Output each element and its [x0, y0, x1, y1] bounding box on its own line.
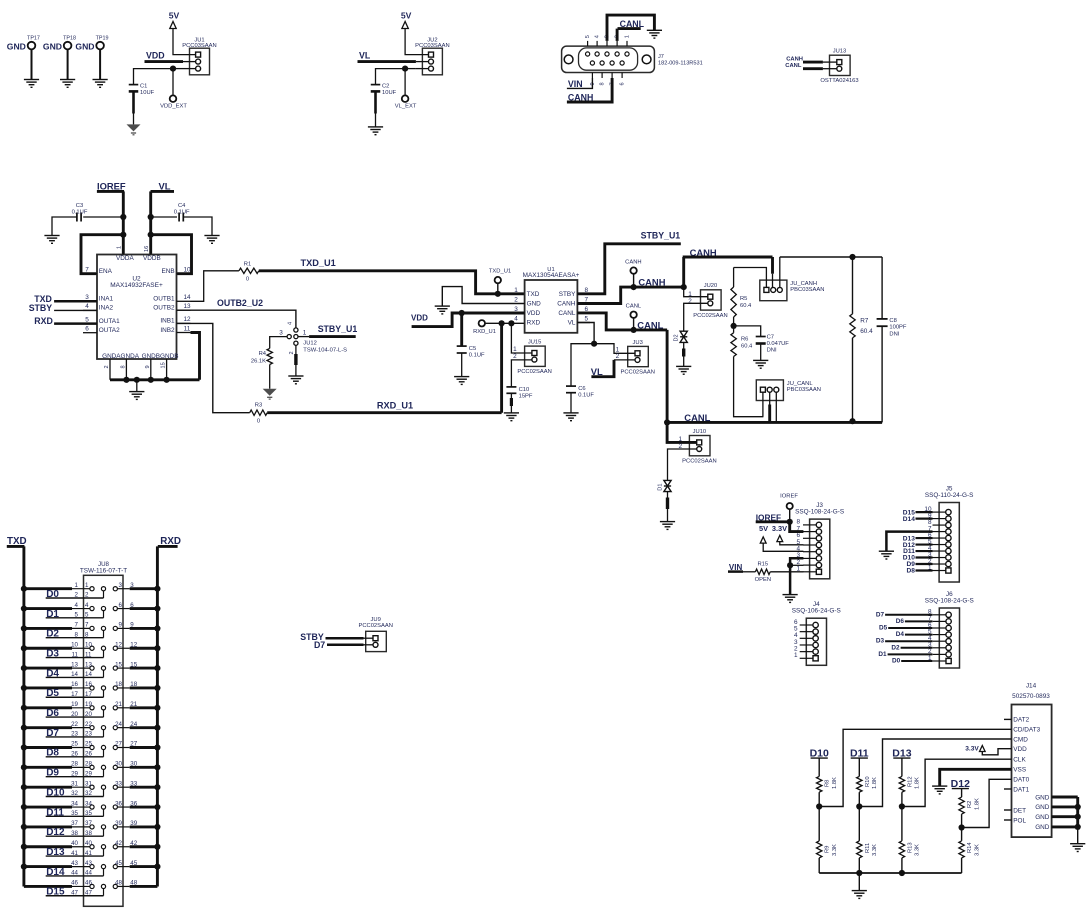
- svg-text:13: 13: [71, 661, 78, 668]
- svg-text:1: 1: [794, 652, 798, 659]
- svg-text:C6: C6: [578, 386, 585, 392]
- svg-text:DAT0: DAT0: [1013, 777, 1029, 784]
- svg-text:33: 33: [115, 780, 122, 787]
- svg-text:48: 48: [115, 880, 122, 887]
- svg-text:12: 12: [115, 641, 122, 648]
- svg-text:27: 27: [115, 741, 122, 748]
- svg-text:RXD_U1: RXD_U1: [473, 329, 496, 335]
- svg-text:R15: R15: [757, 561, 768, 567]
- svg-text:43: 43: [85, 860, 92, 867]
- svg-text:31: 31: [71, 780, 78, 787]
- svg-text:16: 16: [144, 246, 150, 252]
- svg-text:D0: D0: [892, 658, 901, 665]
- svg-text:6: 6: [119, 602, 123, 609]
- svg-text:VL: VL: [359, 51, 371, 61]
- svg-text:10: 10: [183, 267, 191, 274]
- svg-text:30: 30: [130, 761, 137, 768]
- svg-text:32: 32: [85, 790, 92, 797]
- svg-text:GND: GND: [75, 42, 94, 52]
- svg-text:D6: D6: [896, 618, 905, 625]
- svg-text:VL: VL: [159, 181, 171, 192]
- svg-text:20: 20: [85, 711, 92, 718]
- svg-text:DNI: DNI: [889, 331, 899, 337]
- svg-text:R9: R9: [825, 846, 831, 853]
- svg-text:R1: R1: [244, 262, 251, 268]
- svg-text:GND: GND: [1035, 804, 1050, 811]
- svg-text:OUTA2: OUTA2: [99, 327, 120, 334]
- svg-text:C8: C8: [889, 318, 896, 324]
- svg-text:SSQ-108-24-G-S: SSQ-108-24-G-S: [795, 509, 844, 516]
- svg-text:PCC02SAAN: PCC02SAAN: [358, 623, 392, 629]
- svg-text:D1: D1: [878, 651, 887, 658]
- svg-text:22: 22: [85, 721, 92, 728]
- svg-text:3.3K: 3.3K: [974, 844, 980, 856]
- svg-text:4: 4: [287, 322, 293, 325]
- svg-text:PCC02SAAN: PCC02SAAN: [620, 369, 654, 375]
- svg-text:CANH: CANH: [557, 301, 575, 308]
- svg-text:CANL: CANL: [785, 63, 802, 69]
- svg-text:2: 2: [289, 351, 295, 354]
- svg-text:OPEN: OPEN: [755, 577, 771, 583]
- svg-text:15: 15: [115, 661, 122, 668]
- svg-text:25: 25: [85, 741, 92, 748]
- svg-text:32: 32: [71, 790, 78, 797]
- svg-text:40: 40: [71, 840, 78, 847]
- svg-text:20: 20: [71, 711, 78, 718]
- svg-text:1.8K: 1.8K: [915, 777, 921, 789]
- svg-text:GNDAGNDA: GNDAGNDA: [102, 353, 140, 360]
- svg-text:5: 5: [585, 35, 591, 38]
- svg-text:12: 12: [130, 641, 137, 648]
- svg-text:PCC02SAAN: PCC02SAAN: [693, 313, 727, 319]
- svg-text:TXD: TXD: [527, 291, 540, 298]
- svg-text:CANL: CANL: [637, 319, 663, 330]
- svg-text:OSTTA024163: OSTTA024163: [820, 78, 858, 84]
- svg-text:R8: R8: [825, 780, 831, 787]
- svg-text:15: 15: [161, 362, 167, 368]
- svg-text:PCC02SAAN: PCC02SAAN: [517, 369, 551, 375]
- svg-text:4: 4: [595, 35, 601, 38]
- svg-text:18: 18: [115, 681, 122, 688]
- svg-text:14: 14: [183, 294, 191, 301]
- svg-text:0.1UF: 0.1UF: [469, 353, 485, 359]
- svg-text:R4: R4: [259, 351, 267, 357]
- svg-text:VSS: VSS: [1013, 767, 1026, 774]
- svg-text:JU12: JU12: [303, 341, 317, 347]
- svg-text:VDDA: VDDA: [116, 255, 134, 262]
- svg-text:24: 24: [115, 721, 122, 728]
- svg-text:1.8K: 1.8K: [872, 777, 878, 789]
- svg-text:GNDBGNDB: GNDBGNDB: [142, 353, 179, 360]
- svg-text:R2: R2: [967, 801, 973, 808]
- svg-text:28: 28: [71, 761, 78, 768]
- svg-text:GND: GND: [1035, 824, 1050, 831]
- svg-text:RXD: RXD: [34, 316, 53, 326]
- svg-text:INB2: INB2: [160, 327, 175, 334]
- svg-text:OUTB2_U2: OUTB2_U2: [217, 298, 263, 308]
- svg-text:J7: J7: [658, 54, 664, 60]
- svg-text:10UF: 10UF: [382, 90, 397, 96]
- svg-text:STBY_U1: STBY_U1: [318, 324, 358, 334]
- svg-text:TSW-104-07-L-S: TSW-104-07-L-S: [303, 348, 347, 354]
- svg-text:C4: C4: [178, 203, 186, 209]
- svg-text:14: 14: [71, 671, 78, 678]
- svg-text:13: 13: [183, 303, 191, 310]
- svg-text:34: 34: [85, 800, 92, 807]
- svg-text:1: 1: [75, 582, 79, 589]
- svg-text:24: 24: [130, 721, 137, 728]
- svg-text:VDD: VDD: [146, 51, 165, 61]
- svg-text:3.3K: 3.3K: [832, 844, 838, 856]
- svg-text:8: 8: [600, 82, 606, 85]
- svg-text:26: 26: [85, 751, 92, 758]
- svg-text:STBY: STBY: [29, 303, 53, 313]
- svg-text:19: 19: [71, 701, 78, 708]
- svg-text:D2: D2: [891, 644, 900, 651]
- svg-text:OUTB1: OUTB1: [153, 296, 175, 303]
- svg-text:5: 5: [75, 612, 79, 619]
- svg-text:CANH: CANH: [786, 57, 803, 63]
- svg-text:3.3V: 3.3V: [772, 524, 787, 533]
- svg-text:45: 45: [115, 860, 122, 867]
- svg-text:34: 34: [71, 800, 78, 807]
- svg-text:J14: J14: [1026, 683, 1037, 690]
- svg-text:R14: R14: [967, 842, 973, 853]
- svg-text:INB1: INB1: [160, 318, 175, 325]
- svg-text:CD/DAT3: CD/DAT3: [1013, 727, 1040, 734]
- svg-text:D14: D14: [903, 516, 915, 523]
- svg-text:VDD: VDD: [411, 314, 428, 323]
- svg-text:TXD_U1: TXD_U1: [489, 269, 511, 275]
- svg-text:23: 23: [71, 731, 78, 738]
- svg-text:SSQ-106-24-G-S: SSQ-106-24-G-S: [792, 608, 841, 615]
- svg-text:CMD: CMD: [1013, 736, 1028, 743]
- svg-text:PBC03SAAN: PBC03SAAN: [787, 387, 821, 393]
- svg-text:12: 12: [183, 316, 191, 323]
- svg-text:4: 4: [514, 316, 518, 323]
- svg-text:38: 38: [85, 830, 92, 837]
- svg-text:18: 18: [130, 681, 137, 688]
- svg-text:R12: R12: [907, 776, 913, 787]
- svg-text:JU20: JU20: [704, 283, 718, 289]
- svg-text:35: 35: [71, 810, 78, 817]
- svg-text:37: 37: [85, 820, 92, 827]
- svg-text:JU15: JU15: [528, 340, 542, 346]
- svg-text:C7: C7: [767, 335, 774, 341]
- svg-text:POL: POL: [1013, 817, 1026, 824]
- svg-text:21: 21: [115, 701, 122, 708]
- svg-text:38: 38: [71, 830, 78, 837]
- svg-text:RXD_U1: RXD_U1: [377, 401, 413, 411]
- svg-text:D3: D3: [876, 638, 885, 645]
- svg-text:43: 43: [71, 860, 78, 867]
- svg-text:8: 8: [85, 631, 89, 638]
- svg-text:R5: R5: [740, 296, 747, 302]
- svg-text:46: 46: [85, 880, 92, 887]
- svg-text:D2: D2: [674, 334, 680, 341]
- svg-text:1: 1: [117, 246, 123, 249]
- svg-text:4: 4: [75, 602, 79, 609]
- svg-text:TP18: TP18: [63, 35, 76, 41]
- svg-text:2: 2: [85, 592, 89, 599]
- svg-text:INA2: INA2: [99, 305, 114, 312]
- svg-text:JU13: JU13: [833, 49, 847, 55]
- svg-text:1.8K: 1.8K: [832, 777, 838, 789]
- svg-text:STBY: STBY: [559, 291, 576, 298]
- svg-text:3.3V: 3.3V: [965, 745, 979, 752]
- svg-text:502570-0893: 502570-0893: [1012, 693, 1050, 700]
- svg-text:MAX13054AEASA+: MAX13054AEASA+: [523, 272, 580, 279]
- svg-text:R7: R7: [860, 318, 869, 325]
- svg-text:8: 8: [75, 631, 79, 638]
- svg-text:41: 41: [85, 850, 92, 857]
- svg-text:D5: D5: [879, 625, 888, 632]
- svg-text:25: 25: [71, 741, 78, 748]
- svg-text:11: 11: [184, 325, 191, 332]
- svg-text:PCC02SAAN: PCC02SAAN: [682, 459, 716, 465]
- svg-text:0: 0: [246, 277, 249, 283]
- svg-text:C10: C10: [519, 387, 530, 393]
- svg-text:5V: 5V: [169, 11, 180, 21]
- svg-text:5V: 5V: [759, 524, 768, 533]
- svg-text:47: 47: [71, 889, 78, 896]
- svg-text:INA1: INA1: [99, 296, 114, 303]
- svg-text:39: 39: [115, 820, 122, 827]
- svg-text:2: 2: [514, 297, 518, 304]
- svg-text:STBY_U1: STBY_U1: [641, 231, 681, 241]
- svg-text:182-009-113R531: 182-009-113R531: [658, 60, 703, 66]
- svg-text:14: 14: [85, 671, 92, 678]
- svg-text:40: 40: [85, 840, 92, 847]
- svg-text:VIN: VIN: [568, 79, 583, 89]
- svg-text:7: 7: [85, 267, 89, 274]
- svg-text:9: 9: [145, 365, 151, 368]
- svg-text:TP17: TP17: [27, 35, 40, 41]
- svg-text:10: 10: [71, 641, 78, 648]
- svg-text:29: 29: [85, 770, 92, 777]
- svg-text:4: 4: [85, 602, 89, 609]
- svg-text:DNI: DNI: [767, 348, 777, 354]
- svg-text:1.8K: 1.8K: [974, 798, 980, 810]
- svg-text:R13: R13: [907, 842, 913, 853]
- svg-text:GND: GND: [7, 42, 26, 52]
- svg-text:29: 29: [71, 770, 78, 777]
- svg-text:ENA: ENA: [99, 268, 113, 275]
- svg-text:PBC03SAAN: PBC03SAAN: [790, 287, 824, 293]
- svg-text:3: 3: [119, 582, 123, 589]
- svg-text:48: 48: [130, 880, 137, 887]
- svg-text:60.4: 60.4: [860, 328, 873, 335]
- svg-text:D1: D1: [657, 484, 663, 491]
- svg-text:100PF: 100PF: [889, 325, 907, 331]
- svg-text:5V: 5V: [401, 11, 412, 21]
- svg-text:10: 10: [85, 641, 92, 648]
- svg-text:2: 2: [104, 365, 110, 368]
- svg-text:28: 28: [85, 761, 92, 768]
- svg-text:23: 23: [85, 731, 92, 738]
- svg-text:36: 36: [115, 800, 122, 807]
- svg-text:19: 19: [85, 701, 92, 708]
- svg-text:IOREF: IOREF: [780, 494, 798, 500]
- svg-text:22: 22: [71, 721, 78, 728]
- svg-text:CANH: CANH: [638, 276, 665, 287]
- svg-text:GND: GND: [43, 42, 62, 52]
- svg-text:13: 13: [85, 661, 92, 668]
- svg-text:17: 17: [71, 691, 78, 698]
- svg-text:0: 0: [257, 419, 260, 425]
- svg-text:0.1UF: 0.1UF: [578, 393, 594, 399]
- svg-text:D8: D8: [906, 568, 915, 575]
- svg-text:JU3: JU3: [633, 340, 643, 346]
- svg-text:RXD: RXD: [527, 320, 541, 327]
- svg-text:R3: R3: [255, 403, 262, 409]
- svg-text:D4: D4: [896, 631, 905, 638]
- svg-text:D7: D7: [876, 611, 885, 618]
- svg-text:1: 1: [85, 582, 89, 589]
- svg-text:0.047UF: 0.047UF: [767, 341, 790, 347]
- svg-text:1: 1: [513, 346, 517, 353]
- svg-text:VDD: VDD: [527, 310, 541, 317]
- svg-text:ENB: ENB: [161, 268, 174, 275]
- svg-text:39: 39: [130, 820, 137, 827]
- svg-text:CLK: CLK: [1013, 757, 1026, 764]
- svg-text:GND: GND: [527, 301, 542, 308]
- svg-text:36: 36: [130, 800, 137, 807]
- svg-text:2: 2: [513, 353, 517, 360]
- svg-text:6: 6: [620, 82, 626, 85]
- svg-text:PCC03SAAN: PCC03SAAN: [415, 43, 449, 49]
- svg-text:9: 9: [119, 622, 123, 629]
- svg-text:11: 11: [72, 651, 79, 658]
- svg-text:16: 16: [71, 681, 78, 688]
- svg-text:16: 16: [85, 681, 92, 688]
- svg-text:47: 47: [85, 889, 92, 896]
- svg-text:3.3K: 3.3K: [872, 844, 878, 856]
- svg-text:4: 4: [85, 303, 89, 310]
- svg-text:TSW-116-07-T-T: TSW-116-07-T-T: [80, 567, 127, 574]
- svg-text:0.1UF: 0.1UF: [72, 210, 88, 216]
- svg-text:OUTB2: OUTB2: [153, 305, 175, 312]
- svg-text:JU10: JU10: [693, 429, 707, 435]
- svg-text:GND: GND: [1035, 814, 1050, 821]
- svg-text:SSQ-108-24-G-S: SSQ-108-24-G-S: [925, 597, 974, 604]
- svg-text:15: 15: [130, 661, 137, 668]
- svg-text:60.4: 60.4: [740, 303, 752, 309]
- svg-text:R10: R10: [865, 776, 871, 787]
- svg-text:DAT2: DAT2: [1013, 717, 1029, 724]
- svg-text:42: 42: [115, 840, 122, 847]
- svg-text:GND: GND: [1035, 794, 1050, 801]
- svg-text:DAT1: DAT1: [1013, 786, 1029, 793]
- svg-text:VDDB: VDDB: [143, 255, 161, 262]
- svg-text:MAX14932FASE+: MAX14932FASE+: [110, 282, 163, 289]
- svg-text:VL: VL: [568, 320, 576, 327]
- svg-text:26: 26: [71, 751, 78, 758]
- svg-text:44: 44: [71, 870, 78, 877]
- svg-text:8: 8: [120, 365, 126, 368]
- svg-text:VDD_EXT: VDD_EXT: [160, 104, 187, 110]
- svg-text:3: 3: [279, 329, 283, 336]
- svg-text:C2: C2: [382, 84, 389, 90]
- svg-text:15PF: 15PF: [519, 393, 533, 399]
- svg-text:DET: DET: [1013, 807, 1026, 814]
- svg-text:42: 42: [130, 840, 137, 847]
- svg-text:6: 6: [85, 326, 89, 333]
- svg-text:VDD: VDD: [1013, 746, 1027, 753]
- svg-text:1: 1: [303, 329, 307, 336]
- svg-text:3.3K: 3.3K: [915, 844, 921, 856]
- svg-text:9: 9: [130, 622, 134, 629]
- svg-text:17: 17: [85, 691, 92, 698]
- svg-text:2: 2: [616, 353, 620, 360]
- svg-text:SSQ-110-24-G-S: SSQ-110-24-G-S: [925, 492, 974, 499]
- svg-text:C1: C1: [140, 84, 147, 90]
- svg-text:1: 1: [625, 35, 631, 38]
- svg-text:C5: C5: [469, 346, 476, 352]
- svg-text:CANL: CANL: [626, 303, 642, 309]
- svg-text:10UF: 10UF: [140, 90, 155, 96]
- svg-text:7: 7: [75, 622, 79, 629]
- svg-text:VL_EXT: VL_EXT: [395, 104, 417, 110]
- svg-text:5: 5: [585, 316, 589, 323]
- svg-text:C3: C3: [76, 203, 83, 209]
- svg-text:41: 41: [71, 850, 78, 857]
- svg-text:7: 7: [85, 622, 89, 629]
- svg-text:26.1K: 26.1K: [251, 359, 266, 365]
- svg-text:2: 2: [75, 592, 79, 599]
- svg-text:33: 33: [130, 780, 137, 787]
- svg-text:60.4: 60.4: [741, 343, 753, 349]
- svg-text:OUTA1: OUTA1: [99, 318, 120, 325]
- svg-text:R6: R6: [741, 337, 748, 343]
- svg-text:31: 31: [85, 780, 92, 787]
- svg-text:TP19: TP19: [96, 35, 109, 41]
- svg-text:46: 46: [71, 880, 78, 887]
- svg-text:PCC03SAAN: PCC03SAAN: [182, 43, 216, 49]
- svg-text:0.1UF: 0.1UF: [174, 210, 190, 216]
- svg-text:11: 11: [85, 651, 92, 658]
- svg-text:30: 30: [115, 761, 122, 768]
- svg-text:TXD_U1: TXD_U1: [301, 258, 336, 268]
- svg-text:6: 6: [130, 602, 134, 609]
- svg-text:44: 44: [85, 870, 92, 877]
- svg-text:IOREF: IOREF: [97, 181, 126, 192]
- svg-text:1: 1: [514, 287, 518, 294]
- svg-text:3: 3: [130, 582, 134, 589]
- svg-text:D7: D7: [314, 640, 325, 650]
- svg-text:21: 21: [130, 701, 137, 708]
- svg-text:CANL: CANL: [558, 310, 575, 317]
- svg-text:27: 27: [130, 741, 137, 748]
- svg-text:37: 37: [71, 820, 78, 827]
- svg-text:5: 5: [85, 612, 89, 619]
- svg-text:R11: R11: [865, 843, 871, 853]
- svg-text:45: 45: [130, 860, 137, 867]
- svg-text:35: 35: [85, 810, 92, 817]
- svg-text:CANH: CANH: [625, 259, 641, 265]
